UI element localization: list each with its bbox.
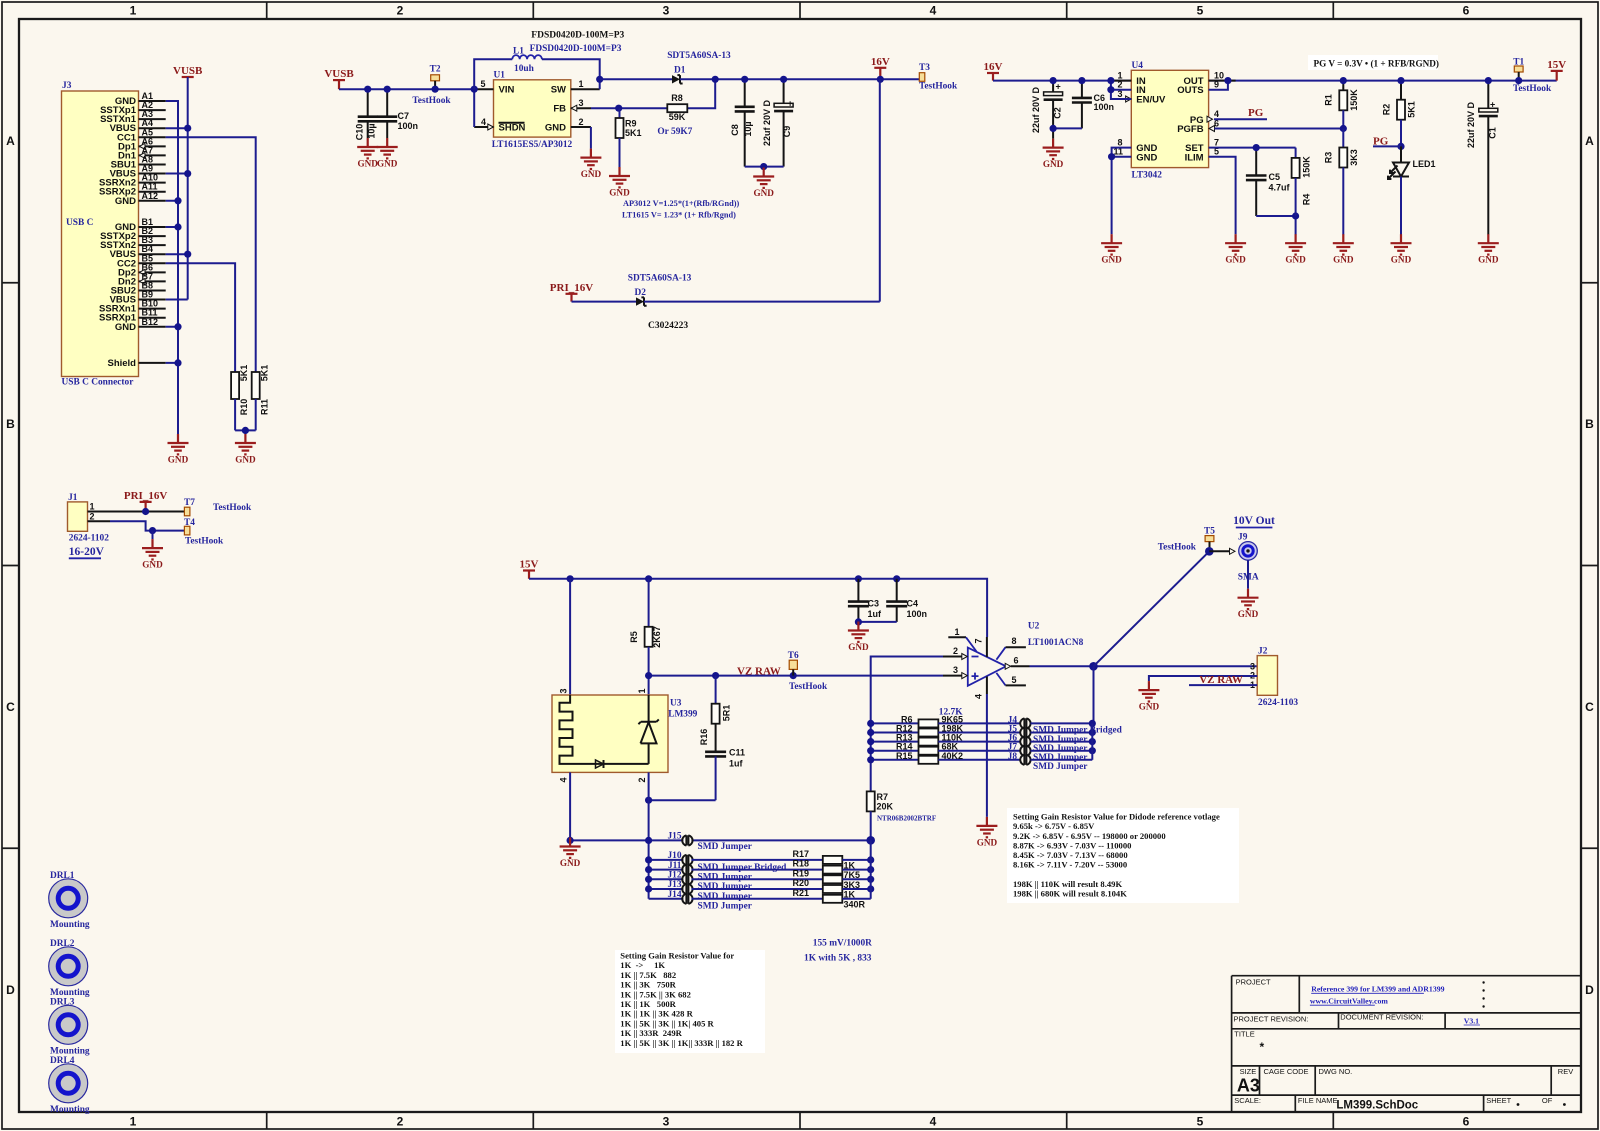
ground C3 [848, 622, 869, 642]
wire D2 to 16V node [644, 301, 880, 303]
resistor R13 110K [871, 733, 1021, 746]
svg-text:1: 1 [578, 79, 583, 89]
svg-text:R21: R21 [792, 888, 809, 898]
jumper J5 [1008, 725, 1093, 745]
ground C1 [1478, 234, 1499, 254]
wire VUSB bus of J3 [166, 77, 188, 300]
svg-text:4: 4 [559, 777, 569, 782]
svg-text:GND: GND [609, 188, 630, 198]
svg-text:VUSB: VUSB [173, 65, 203, 77]
svg-text:R3: R3 [1324, 152, 1334, 164]
resistor R18 7K5 [792, 859, 870, 881]
svg-text:198K || 680K will result 8.104: 198K || 680K will result 8.104K [1013, 888, 1127, 898]
svg-text:CAGE CODE: CAGE CODE [1264, 1067, 1309, 1076]
svg-text:GND: GND [581, 169, 602, 179]
svg-text:J11: J11 [668, 861, 682, 871]
inductor L1 FDSD0420D-100M=P3 [474, 44, 622, 89]
svg-text:NTR06B2002BTRF: NTR06B2002BTRF [877, 815, 936, 823]
svg-text:2624-1103: 2624-1103 [1258, 698, 1298, 708]
svg-text:GND: GND [142, 560, 163, 570]
svg-text:8.45K -> 7.03V - 7.13V -- 6800: 8.45K -> 7.03V - 7.13V -- 68000 [1013, 850, 1128, 860]
svg-text:150K: 150K [1349, 89, 1359, 111]
svg-text:3: 3 [578, 98, 583, 108]
capacitor C3 1uf [848, 579, 882, 622]
svg-text:AP3012 V=1.25*(1+(Rfb/RGnd)): AP3012 V=1.25*(1+(Rfb/RGnd)) [623, 199, 739, 208]
mounting hole DRL2 [49, 939, 90, 998]
svg-text:DOCUMENT REVISION:: DOCUMENT REVISION: [1340, 1013, 1423, 1022]
svg-text:1K || 5K || 3K || 1K|| 333R ||: 1K || 5K || 3K || 1K|| 333R || 182 R [620, 1038, 743, 1048]
svg-text:R7: R7 [877, 792, 889, 802]
ground C7 [377, 138, 398, 158]
svg-text:3: 3 [663, 1115, 670, 1129]
testhook T6 [789, 660, 797, 669]
ground U2 [976, 817, 997, 837]
svg-text:GND: GND [115, 196, 136, 207]
svg-text:5K1: 5K1 [625, 128, 642, 138]
svg-text:Mounting: Mounting [50, 988, 90, 998]
svg-text:A: A [1585, 134, 1594, 148]
wire output [1030, 665, 1258, 667]
mounting hole DRL3 [49, 997, 90, 1056]
svg-text:GND: GND [1238, 609, 1259, 619]
note gain resistor table (right) [1007, 808, 1239, 903]
svg-text:5: 5 [1197, 1115, 1204, 1129]
svg-text:2: 2 [90, 511, 95, 521]
svg-text:C2: C2 [1053, 107, 1063, 119]
svg-text:15V: 15V [1547, 59, 1566, 71]
wire to U3 pin3 [569, 579, 571, 695]
resistor R5 2K67 [629, 579, 662, 676]
svg-text:5: 5 [1011, 675, 1016, 685]
svg-text:1K || 1K || 3K 428 R: 1K || 1K || 3K 428 R [620, 1009, 693, 1019]
svg-text:3: 3 [663, 4, 670, 18]
svg-text:1K || 5K || 3K || 1K| 405 R: 1K || 5K || 3K || 1K| 405 R [620, 1018, 714, 1028]
power port 16V (D1 out) [874, 67, 886, 69]
testhook T5 [1205, 536, 1214, 542]
svg-text:R15: R15 [896, 751, 913, 761]
svg-text:Reference 399 for LM399 and AD: Reference 399 for LM399 and ADR1399 [1311, 985, 1444, 994]
resistor R4 150K [1292, 148, 1312, 216]
svg-text:1uf: 1uf [729, 759, 744, 769]
resistor R16 5R1 [699, 676, 732, 752]
diode D2 SDT5A60SA-13 [628, 274, 692, 306]
svg-text:LM399: LM399 [668, 710, 697, 720]
voltage reference U3 LM399 [552, 688, 698, 782]
svg-text:Setting Gain Resistor Value fo: Setting Gain Resistor Value for Didode r… [1013, 812, 1220, 822]
svg-text:V3.1: V3.1 [1464, 1016, 1479, 1025]
svg-text:+: + [1490, 99, 1495, 109]
svg-text:OUTS: OUTS [1177, 85, 1203, 96]
svg-text:T6: T6 [788, 651, 799, 661]
svg-text:R11: R11 [260, 399, 270, 415]
svg-text:L1: L1 [513, 46, 524, 56]
svg-text:FB: FB [553, 104, 566, 115]
ground J2 [1138, 681, 1159, 701]
svg-text:PG V = 0.3V • (1 + RFB/RGND): PG V = 0.3V • (1 + RFB/RGND) [1314, 59, 1439, 69]
wire J1 pin2 to T4 [110, 521, 184, 530]
svg-text:40K2: 40K2 [942, 751, 964, 761]
capacitor C8 10u [730, 79, 755, 166]
power port VUSB (U1) [333, 79, 345, 81]
svg-text:R1: R1 [1324, 94, 1334, 106]
ground U3 [560, 838, 581, 858]
svg-text:Shield: Shield [107, 358, 136, 369]
label PG formula [1308, 55, 1438, 70]
wire 15V rail [529, 579, 987, 637]
svg-text:J3: J3 [62, 81, 72, 91]
power port 15V (U4 out) [1551, 70, 1563, 72]
jumper J6 [1008, 734, 1093, 754]
wire VUSB to U1 VIN [339, 88, 474, 90]
svg-text:TestHook: TestHook [185, 537, 224, 547]
svg-text:A: A [6, 134, 15, 148]
testhook T1 [1514, 66, 1523, 72]
svg-text:5K1: 5K1 [1407, 101, 1417, 118]
svg-text:SMD Jumper: SMD Jumper [698, 842, 752, 852]
svg-text:100n: 100n [398, 121, 419, 131]
svg-text:C10: C10 [355, 124, 365, 141]
resistor R14 68K [871, 742, 1021, 755]
svg-text:+: + [788, 98, 793, 108]
svg-text:Mounting: Mounting [50, 1046, 90, 1056]
diode D1 SDT5A60SA-13 [667, 51, 731, 84]
svg-text:GND: GND [1136, 152, 1157, 163]
svg-text:PG: PG [1248, 107, 1264, 119]
wire CC2 to R10 [166, 263, 235, 372]
jumper J13 [649, 880, 823, 902]
svg-text:U4: U4 [1132, 61, 1144, 71]
ground R10/R11 [235, 434, 256, 454]
svg-text:PRI_16V: PRI_16V [550, 282, 593, 294]
title block [1232, 976, 1581, 1112]
svg-text:A12: A12 [142, 191, 159, 201]
jumper J12 [649, 871, 823, 893]
svg-text:2624-1102: 2624-1102 [69, 534, 109, 544]
connector J9 SMA [1209, 533, 1259, 583]
svg-text:GND: GND [1101, 255, 1122, 265]
svg-text:J12: J12 [667, 871, 681, 881]
svg-text:*: * [1260, 1040, 1265, 1054]
testhook T3 [919, 73, 925, 82]
svg-text:4: 4 [930, 4, 937, 18]
svg-text:T7: T7 [184, 498, 195, 508]
svg-text:16V: 16V [984, 61, 1003, 73]
ground J3 [168, 434, 189, 454]
svg-text:1: 1 [954, 627, 959, 637]
svg-text:VZ RAW: VZ RAW [1199, 674, 1243, 686]
svg-text:www.CircuitValley.com: www.CircuitValley.com [1310, 996, 1388, 1005]
connector J2 2624-1103 [1250, 647, 1298, 708]
svg-text:TestHook: TestHook [213, 503, 252, 513]
svg-text:SMD Jumper: SMD Jumper [698, 892, 752, 902]
svg-text:SHEET: SHEET [1486, 1096, 1511, 1105]
svg-text:1: 1 [130, 4, 137, 18]
svg-text:DRL4: DRL4 [50, 1056, 75, 1066]
resistor R3 3K3 [1324, 129, 1360, 235]
svg-text:EN/UV: EN/UV [1136, 95, 1166, 106]
svg-text:R10: R10 [239, 399, 249, 416]
svg-text:5K1: 5K1 [260, 365, 270, 382]
svg-text:10uh: 10uh [514, 64, 535, 74]
capacitor C10 10u [355, 89, 378, 140]
regulator U1 LT1615ES5/AP3012 [474, 71, 600, 150]
wire C3/C4 bottom [858, 621, 896, 623]
svg-text:R5: R5 [629, 631, 639, 643]
svg-text:SMD Jumper: SMD Jumper [698, 882, 752, 892]
svg-text:SMD Jumper: SMD Jumper [1033, 762, 1087, 772]
jumper J4 [1008, 715, 1123, 735]
svg-text:R9: R9 [625, 119, 637, 129]
svg-text:5: 5 [480, 79, 485, 89]
capacitor C7 100n [377, 89, 418, 138]
svg-text:LT1615 V= 1.23* (1+ Rfb/Rgnd): LT1615 V= 1.23* (1+ Rfb/Rgnd) [622, 211, 736, 220]
svg-text:GND: GND [377, 159, 398, 169]
jumper J15 SMD Jumper [667, 832, 752, 853]
svg-text:VIN: VIN [499, 85, 515, 96]
wire GND bus of J3 [166, 101, 178, 434]
svg-text:A3: A3 [1237, 1076, 1260, 1096]
capacitor C5 4.7uf [1246, 148, 1291, 216]
svg-text:7: 7 [974, 638, 984, 643]
svg-text:R4: R4 [1302, 194, 1312, 206]
svg-text:PROJECT REVISION:: PROJECT REVISION: [1234, 1015, 1309, 1024]
svg-text:GND: GND [168, 455, 189, 465]
svg-text:PGFB: PGFB [1177, 124, 1204, 135]
jumper J8 [1008, 752, 1093, 772]
wire ILIM to ground [1209, 157, 1236, 235]
svg-text:15V: 15V [520, 559, 539, 571]
power port 15V (mid) [523, 569, 535, 571]
svg-text:USB C: USB C [66, 218, 94, 228]
svg-text:GND: GND [1139, 702, 1160, 712]
svg-text:SMD Jumper: SMD Jumper [698, 873, 752, 883]
wire SW node [599, 79, 601, 89]
svg-text:PROJECT: PROJECT [1236, 978, 1271, 987]
svg-text:FDSD0420D-100M=P3: FDSD0420D-100M=P3 [530, 44, 622, 54]
svg-text:J9: J9 [1238, 533, 1248, 543]
svg-text:VUSB: VUSB [324, 68, 354, 80]
svg-text:SMD Jumper: SMD Jumper [698, 902, 752, 912]
svg-text:R18: R18 [792, 859, 809, 869]
wire PRI_16V to D2 [572, 301, 637, 303]
jumper J11 [649, 861, 823, 883]
svg-text:GND: GND [1043, 159, 1064, 169]
connector J1 2624-1102 [68, 493, 116, 544]
svg-text:Setting Gain Resistor Value fo: Setting Gain Resistor Value for [620, 951, 734, 961]
resistor R1 150K [1324, 81, 1360, 129]
power port 16V (U4) [987, 72, 999, 74]
svg-text:8.16K -> 7.11V - 7.20V -- 5300: 8.16K -> 7.11V - 7.20V -- 53000 [1013, 860, 1127, 870]
jumper J14 [649, 890, 823, 912]
resistor R8 59K [667, 93, 687, 122]
svg-text:R19: R19 [792, 868, 809, 878]
svg-text:1: 1 [90, 502, 95, 512]
svg-text:U1: U1 [494, 71, 506, 81]
capacitor C4 100n [886, 579, 927, 622]
svg-text:GND: GND [848, 642, 869, 652]
wire SET [1209, 147, 1296, 149]
LED LED1 [1388, 146, 1436, 234]
svg-text:T2: T2 [430, 65, 441, 75]
svg-text:J1: J1 [68, 493, 78, 503]
svg-text:SHDN: SHDN [499, 123, 526, 134]
resistor R20 1K [792, 878, 870, 900]
svg-text:3: 3 [559, 688, 569, 693]
op-amp U2 LT1001ACN8 [943, 622, 1084, 700]
svg-text:+: + [1056, 81, 1061, 91]
resistor R7 20K [867, 791, 936, 840]
wire J9 to ground [1247, 560, 1249, 589]
ground C10 [357, 138, 378, 158]
svg-text:Mounting: Mounting [50, 1105, 90, 1115]
svg-text:FDSD0420D-100M=P3: FDSD0420D-100M=P3 [531, 31, 624, 41]
svg-text:U3: U3 [670, 699, 682, 709]
svg-text:R16: R16 [699, 729, 709, 746]
svg-text:1K || 3K 750R: 1K || 3K 750R [620, 980, 676, 990]
wire jumper bus [1091, 723, 1093, 759]
svg-text:C: C [1585, 700, 1594, 714]
svg-text:16-20V: 16-20V [69, 546, 105, 558]
ground ILIM [1225, 234, 1246, 254]
resistor R19 3K3 [792, 868, 870, 890]
resistor R2 5K1 [1382, 81, 1417, 147]
svg-text:GND: GND [235, 455, 256, 465]
svg-text:C1: C1 [1488, 127, 1498, 139]
svg-text:DRL3: DRL3 [50, 997, 75, 1007]
wire CC1 to R11 [166, 137, 256, 372]
wire minus input bus [871, 657, 943, 792]
testhook T4 [184, 526, 190, 535]
svg-text:10V Out: 10V Out [1233, 515, 1275, 527]
svg-text:5: 5 [1197, 4, 1204, 18]
wire VZ_RAW rail [649, 675, 943, 677]
wire U3 pin2 down [648, 772, 650, 898]
mounting hole DRL4 [49, 1056, 90, 1115]
svg-text:TestHook: TestHook [789, 682, 828, 692]
svg-text:C11: C11 [729, 748, 745, 758]
wire U3 pin1 [648, 676, 650, 695]
capacitor C11 1uf [705, 748, 745, 801]
svg-text:TestHook: TestHook [412, 96, 451, 106]
svg-text:10µ: 10µ [743, 121, 753, 136]
junction dots VUSB bus [184, 125, 191, 132]
svg-text:T3: T3 [919, 63, 930, 73]
svg-text:GND: GND [560, 858, 581, 868]
svg-text:TestHook: TestHook [1158, 543, 1197, 553]
svg-text:OF: OF [1542, 1096, 1553, 1105]
wire FB divider [591, 79, 715, 108]
resistor R12 198K [871, 724, 1021, 737]
wire C6 to C2 gnd [1053, 127, 1082, 129]
svg-text:3K3: 3K3 [1349, 149, 1359, 166]
svg-text:1uf: 1uf [868, 609, 883, 619]
svg-text:GND: GND [1391, 255, 1412, 265]
svg-text:D: D [1585, 983, 1594, 997]
svg-text:5K1: 5K1 [239, 365, 249, 382]
resistor R21 340R [792, 888, 870, 910]
capacitor C1 22uf 20V D [1466, 81, 1498, 235]
jumper J10 [649, 851, 823, 873]
mounting hole DRL1 [49, 871, 90, 930]
regulator U4 LT3042 [1113, 61, 1224, 181]
svg-text:1: 1 [637, 688, 647, 693]
svg-text:VZ RAW: VZ RAW [737, 665, 781, 677]
svg-text:USB C Connector: USB C Connector [62, 378, 134, 388]
wire 16V to IN2/EN [1111, 81, 1131, 99]
svg-text:1K || 7.5K 882: 1K || 7.5K 882 [620, 970, 676, 980]
svg-text:R2: R2 [1382, 104, 1392, 116]
svg-text:100n: 100n [1094, 102, 1115, 112]
svg-text:2: 2 [637, 777, 647, 782]
wire 16V to U4 IN [993, 80, 1131, 82]
ground C2/C6 [1043, 139, 1064, 159]
svg-text:SMD Jumper Bridged: SMD Jumper Bridged [698, 863, 788, 873]
svg-text:U2: U2 [1028, 622, 1040, 632]
svg-text:LM399.SchDoc: LM399.SchDoc [1336, 1100, 1418, 1112]
svg-text:150K: 150K [1302, 156, 1312, 178]
svg-text:GND: GND [115, 322, 136, 333]
wire J1 pin1 to T7 [115, 511, 184, 513]
svg-text:1K || 333R 249R: 1K || 333R 249R [620, 1028, 682, 1038]
svg-text:B12: B12 [142, 317, 159, 327]
ground J1 [142, 539, 163, 559]
connector J3 USB C [62, 81, 166, 388]
svg-text:1K with 5K , 833: 1K with 5K , 833 [804, 954, 872, 964]
svg-text:T1: T1 [1513, 57, 1524, 67]
svg-text:J13: J13 [667, 880, 681, 890]
wire C5 bottom to R4 [1256, 216, 1295, 235]
svg-text:TITLE: TITLE [1234, 1029, 1254, 1038]
wire U4 gnd pins [1112, 148, 1132, 235]
svg-text:TestHook: TestHook [1513, 84, 1552, 94]
svg-text:R8: R8 [671, 93, 683, 103]
svg-text:GND: GND [1478, 255, 1499, 265]
svg-text:3: 3 [953, 665, 958, 675]
svg-text:340R: 340R [844, 899, 866, 909]
resistor R9 5K1 [616, 108, 642, 167]
testhook T2 [431, 75, 440, 81]
wire PGFB to R1/R3 [1215, 128, 1344, 130]
svg-text:FILE NAME: FILE NAME [1298, 1096, 1338, 1105]
svg-text:Or 59K7: Or 59K7 [657, 127, 692, 137]
svg-text:22uf 20V D: 22uf 20V D [1031, 86, 1041, 133]
svg-text:J2: J2 [1258, 647, 1268, 657]
svg-text:C: C [6, 700, 15, 714]
ground LED1 [1391, 234, 1412, 254]
svg-text:4: 4 [481, 117, 486, 127]
svg-text:D1: D1 [674, 66, 686, 76]
svg-text:R20: R20 [792, 878, 809, 888]
svg-text:C3: C3 [868, 599, 880, 609]
ground U4 [1101, 234, 1122, 254]
capacitor C2 22uf 20V D [1031, 81, 1063, 139]
svg-text:T5: T5 [1204, 527, 1215, 537]
ground R3 [1333, 234, 1354, 254]
svg-text:SCALE:: SCALE: [1234, 1096, 1261, 1105]
svg-text:D: D [6, 983, 15, 997]
svg-text:C8: C8 [730, 124, 740, 136]
svg-text:R17: R17 [792, 849, 809, 859]
wire 16V down to D2 [879, 79, 881, 301]
svg-text:DRL2: DRL2 [50, 939, 75, 949]
svg-text:5R1: 5R1 [722, 705, 732, 722]
svg-text:6: 6 [1463, 4, 1470, 18]
svg-text:1K || 7.5K || 3K 682: 1K || 7.5K || 3K 682 [620, 989, 691, 999]
wire J2 pin2 to ground [1149, 676, 1257, 681]
capacitor C9 22uf 20V D [762, 79, 793, 166]
svg-text:20K: 20K [877, 802, 894, 812]
wire OUT rail to 15V [1209, 81, 1557, 90]
